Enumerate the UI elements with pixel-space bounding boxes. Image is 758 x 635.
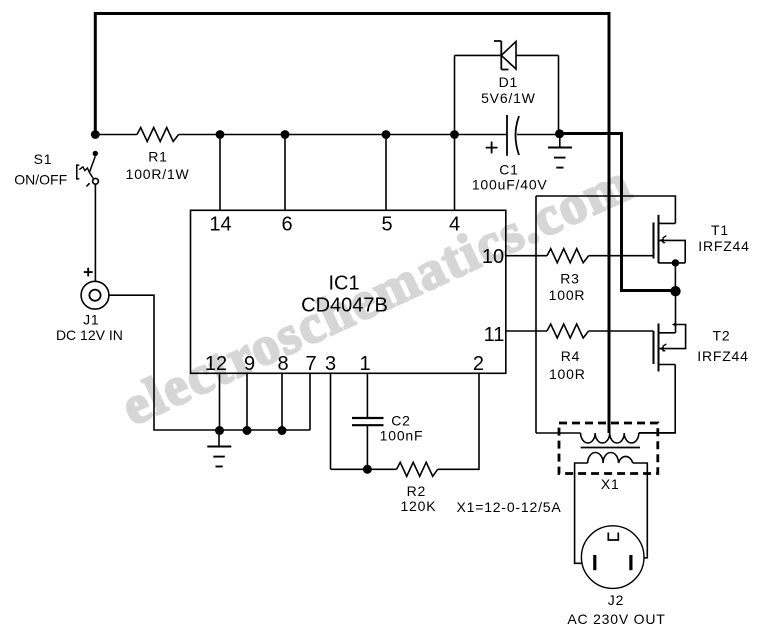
resistor R2 bbox=[397, 462, 438, 514]
wire rail R1 to C1 bbox=[179, 134, 507, 136]
wire secondary left lead bbox=[575, 463, 588, 563]
resistor R3 bbox=[547, 249, 589, 303]
wire pin10 to gate T1 bbox=[506, 255, 547, 257]
wire T1 source to node bbox=[674, 263, 676, 289]
svg-text:T1: T1 bbox=[711, 222, 729, 238]
svg-text:IRFZ44: IRFZ44 bbox=[697, 348, 748, 364]
node pin14 bbox=[216, 130, 225, 139]
svg-text:IRFZ44: IRFZ44 bbox=[698, 238, 749, 254]
wire switch to J1 bbox=[94, 184, 96, 281]
wire T2 drain to transformer bbox=[639, 365, 675, 433]
svg-text:100nF: 100nF bbox=[380, 428, 424, 444]
resistor R1 bbox=[126, 128, 190, 182]
resistor R4 bbox=[547, 324, 589, 382]
svg-text:100uF/40V: 100uF/40V bbox=[472, 176, 548, 192]
wire main positive rail bbox=[95, 134, 137, 136]
svg-text:R2: R2 bbox=[407, 483, 427, 499]
svg-text:C1: C1 bbox=[499, 162, 519, 178]
svg-text:9: 9 bbox=[244, 353, 255, 375]
wire D1 right leg bbox=[558, 55, 560, 134]
transformer X1 primary winding bbox=[581, 433, 639, 443]
svg-text:R4: R4 bbox=[561, 348, 581, 364]
node bus pin12 bbox=[215, 426, 224, 435]
svg-text:2: 2 bbox=[473, 353, 484, 375]
svg-text:100R/1W: 100R/1W bbox=[126, 166, 190, 182]
node junction top-left bbox=[91, 130, 100, 139]
capacitor C2 bbox=[352, 413, 423, 444]
pin 6 wire bbox=[284, 135, 286, 211]
svg-text:J2: J2 bbox=[608, 592, 624, 608]
pin 1 wire to C2 bbox=[366, 373, 368, 417]
capacitor C1 bbox=[472, 115, 548, 192]
wire left vertical to transformer bbox=[535, 196, 537, 433]
wire primary right lead bbox=[639, 432, 675, 434]
node C2 R2 junction bbox=[363, 465, 372, 474]
node pin5 bbox=[382, 130, 391, 139]
svg-text:1: 1 bbox=[359, 353, 370, 375]
wire secondary right lead bbox=[633, 463, 648, 558]
socket J2 AC out bbox=[567, 526, 665, 627]
wire thick ground node to FET sources bbox=[560, 134, 676, 291]
wire R4 to T2 gate bbox=[589, 330, 654, 332]
node ground C1 bbox=[555, 129, 564, 138]
IC IC1 CD4047B box bbox=[191, 210, 506, 373]
svg-text:8: 8 bbox=[277, 353, 288, 375]
node bus pin8 bbox=[278, 426, 287, 435]
pin 14 wire bbox=[219, 135, 221, 211]
svg-text:CD4047B: CD4047B bbox=[301, 295, 388, 317]
svg-text:3: 3 bbox=[325, 353, 336, 375]
node pin4 D1 bbox=[450, 130, 459, 139]
wire J1 to ground bus bbox=[109, 295, 310, 430]
svg-text:AC 230V OUT: AC 230V OUT bbox=[567, 611, 665, 627]
svg-text:14: 14 bbox=[209, 214, 231, 236]
zener diode D1 bbox=[455, 41, 559, 106]
svg-text:IC1: IC1 bbox=[328, 273, 359, 295]
wire pin11 to gate T2 bbox=[506, 330, 547, 332]
wire R3 to T1 gate bbox=[589, 255, 654, 257]
connector J1 DC jack bbox=[56, 268, 123, 343]
svg-text:5: 5 bbox=[381, 214, 392, 236]
transformer X1 dashed box bbox=[559, 423, 658, 474]
svg-text:5V6/1W: 5V6/1W bbox=[481, 90, 536, 106]
svg-text:S1: S1 bbox=[34, 151, 53, 167]
svg-text:100R: 100R bbox=[549, 287, 586, 303]
pin 8 wire bbox=[281, 373, 283, 430]
wire thick right drop to transformer center tap bbox=[608, 12, 611, 433]
svg-text:11: 11 bbox=[484, 324, 505, 346]
wire drain rail T1 bbox=[536, 196, 675, 223]
node FET common bbox=[670, 286, 680, 296]
pin 3 wire down bbox=[330, 373, 332, 469]
pin 9 wire bbox=[246, 373, 248, 430]
wire D1 left leg bbox=[454, 55, 456, 134]
svg-text:ON/OFF: ON/OFF bbox=[14, 172, 67, 188]
pin 12 wire bbox=[219, 373, 221, 430]
svg-text:T2: T2 bbox=[713, 328, 731, 344]
wire primary left lead bbox=[536, 432, 581, 434]
transformer X1 core bbox=[581, 447, 640, 449]
node bus pin9 bbox=[243, 426, 252, 435]
ground under IC bbox=[207, 434, 231, 467]
wire bottom loop left bbox=[331, 468, 397, 470]
svg-text:X1=12-0-12/5A: X1=12-0-12/5A bbox=[457, 499, 562, 515]
wire node to T2 bbox=[675, 291, 677, 333]
switch S1 bbox=[14, 151, 98, 188]
ground right of C1 bbox=[548, 137, 572, 168]
transistor T2 IRFZ44 bbox=[654, 322, 749, 371]
svg-text:7: 7 bbox=[305, 353, 316, 375]
node pin6 bbox=[281, 130, 290, 139]
svg-text:R3: R3 bbox=[560, 270, 580, 286]
svg-text:6: 6 bbox=[281, 214, 292, 236]
pin 4 wire bbox=[454, 135, 456, 211]
wire C2 down bbox=[366, 426, 368, 469]
pin 7 wire bbox=[309, 373, 311, 430]
transformer X1 secondary winding bbox=[588, 452, 633, 463]
svg-text:D1: D1 bbox=[499, 74, 519, 90]
svg-text:4: 4 bbox=[449, 214, 460, 236]
svg-text:DC 12V IN: DC 12V IN bbox=[56, 327, 123, 343]
transistor T1 IRFZ44 bbox=[654, 215, 750, 267]
pin 5 wire bbox=[385, 135, 387, 211]
wire R2 to pin2 bbox=[438, 373, 479, 469]
wire thick left drop bbox=[94, 12, 97, 135]
wire thick top rail +12V bbox=[95, 12, 609, 15]
svg-text:12: 12 bbox=[205, 353, 227, 375]
svg-text:100R: 100R bbox=[549, 366, 586, 382]
svg-text:10: 10 bbox=[482, 246, 504, 268]
svg-text:C2: C2 bbox=[391, 413, 411, 429]
svg-text:120K: 120K bbox=[400, 498, 436, 514]
svg-text:R1: R1 bbox=[148, 149, 168, 165]
watermark electroschematics.com bbox=[113, 152, 641, 437]
wire rail C1 to ground node bbox=[517, 134, 558, 136]
svg-text:X1: X1 bbox=[601, 476, 620, 492]
svg-text:J1: J1 bbox=[83, 312, 99, 328]
